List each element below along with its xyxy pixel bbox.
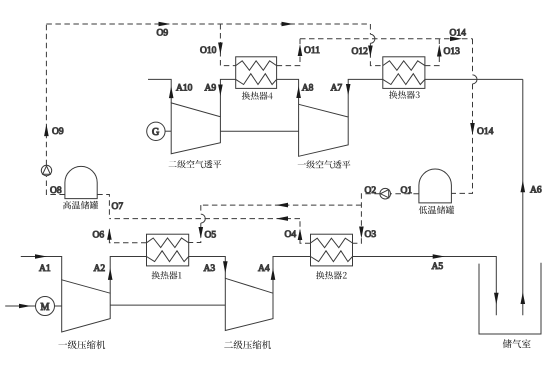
pump P2 [380,188,391,199]
turbine T2 二级空气透平 [171,103,220,154]
wire shaft compressors [110,304,225,306]
svg-text:O14: O14 [450,29,467,39]
arrow O14 right [450,37,462,42]
wire O10 branch down [220,24,235,66]
turbine T1 一级空气透平 [299,104,349,156]
arrow A5 down chamber [494,293,499,305]
wire air top right [425,78,523,80]
svg-text:O14: O14 [477,127,494,137]
wire A10 exhaust [148,79,171,103]
wire A1 inlet [21,257,62,280]
pump P1 [41,165,51,175]
wire O1 cold tank to pump [391,193,419,195]
svg-text:A8: A8 [302,84,314,94]
arrow A6 up lower [521,292,526,304]
wire motor to compressor [55,305,62,307]
arrow A2 up [108,268,113,280]
svg-text:O11: O11 [304,46,320,56]
svg-text:A2: A2 [94,264,106,274]
arrow motor inlet [19,304,31,309]
wire A7 [348,79,383,117]
arrow A7 down [346,84,351,96]
node O14 right label [477,127,494,137]
wire A8 riser [277,79,299,104]
svg-text:O13: O13 [444,47,461,57]
label chamber [224,340,271,349]
label HX3 [63,201,98,209]
node O3 label [365,230,377,240]
air chamber 储气室 [479,263,541,334]
svg-text:O9: O9 [157,29,169,39]
node A9 label [205,84,217,94]
node A6 label [530,185,542,195]
arrow A8 up [296,86,301,98]
label cold tank [316,271,347,279]
wire O8 tank to pump [46,176,65,195]
node O12 label [352,47,369,57]
wire A3 [189,257,226,279]
heat exchanger HX2 box [311,234,353,266]
node A10 label [176,84,193,94]
wire A6 riser [522,79,524,315]
node O14 top label [450,29,467,39]
tank cold 低温储罐 [419,169,452,203]
wire shaft turbines [220,130,298,132]
svg-text:O12: O12 [352,47,369,57]
wire top dashed horizontal [46,23,370,25]
wire O14 vertical down with hop [451,39,477,194]
wire O6 from HX1 left [109,228,146,243]
arrow O10 down [218,43,223,55]
wire O2 pump to branch [353,194,380,244]
svg-text:O1: O1 [401,186,413,196]
wire generator to turbine [165,130,171,132]
svg-text:A10: A10 [176,84,193,94]
arrow O13 up [437,45,442,57]
svg-text:O8: O8 [50,186,62,196]
label compressor1 [503,339,531,348]
svg-text:O6: O6 [93,231,105,241]
arrow O5 line left [276,203,288,208]
wire O11 from HX4 up [277,39,300,66]
wire A9 [220,79,235,116]
wire O14 upper horizontal dashed [300,38,473,40]
node O5 label [205,231,217,241]
svg-text:O7: O7 [112,202,124,212]
label compressor2 [58,340,105,349]
arrow O4 up [298,229,303,241]
svg-text:A1: A1 [39,264,51,274]
node A1 label [39,264,51,274]
arrow A4 up [271,268,276,280]
compressor C1 一级压缩机 [62,280,110,332]
svg-text:G: G [152,127,159,138]
label HX1 [389,91,420,99]
heat exchanger HX3 box [383,57,425,89]
svg-text:O10: O10 [200,46,217,56]
arrow O12 down [368,46,373,58]
svg-text:A4: A4 [258,264,270,274]
label HX4 [419,206,455,214]
svg-text:O5: O5 [205,231,217,241]
svg-text:M: M [41,302,50,313]
arrow A9 down [218,85,223,97]
node A5 label [432,262,444,272]
svg-text:A6: A6 [530,185,542,195]
node O13 label [444,47,461,57]
wire O12 branch down with hop [370,24,382,66]
wire motor inlet [5,305,35,307]
node A2 label [94,264,106,274]
generator G1 [147,122,165,140]
arrow O9 up [44,124,49,136]
node A8 label [302,84,314,94]
node O2 label [365,186,377,196]
wire O9 vertical dashed left [45,24,47,165]
node O10 label [200,46,217,56]
heat exchanger HX1 box [147,234,189,266]
heat exchanger HX4 box [236,57,277,89]
wire oil return horizontal [109,218,300,220]
node O9 top label [157,29,169,39]
svg-text:O3: O3 [365,230,377,240]
node O4 label [285,230,297,240]
arrow top O9 right [159,22,171,27]
node O9 left label [52,127,64,137]
node A4 label [258,264,270,274]
node O11 label [304,46,320,56]
svg-text:O4: O4 [285,230,297,240]
arrow A10 up [169,86,174,98]
node O7 label [112,202,124,212]
wire A5 [353,257,497,316]
arrow O6 up [107,228,112,240]
tank hot 高温储罐 [65,166,97,198]
node O6 label [93,231,105,241]
wire A4 riser [273,257,311,294]
node A7 label [331,84,343,94]
wire O7 tank to return [97,195,109,219]
svg-text:A7: A7 [331,84,343,94]
wire O5 vertical with hop [189,205,206,242]
arrow top second right [282,22,294,27]
arrow return left [276,216,288,221]
arrow A6 up upper [521,180,526,192]
node O8 label [50,186,62,196]
node O1 label [401,186,413,196]
svg-text:O2: O2 [365,186,377,196]
arrow O14 down [470,123,475,135]
wire A2 riser [110,257,146,294]
label hot tank [152,271,182,279]
label turbine1 [169,160,222,168]
svg-text:A9: A9 [205,84,217,94]
svg-text:A5: A5 [432,262,444,272]
wire O5 horizontal branch [201,204,362,206]
node A3 label [204,264,216,274]
compressor C2 二级压缩机 [225,278,273,330]
motor M1 [36,297,55,316]
arrow A5 right [433,254,445,259]
arrow O5 down [199,227,204,239]
arrow O3 down [359,227,364,239]
arrow O11 up [298,44,303,56]
wire O13 from HX3 up [425,39,439,66]
arrow A1 right [35,254,47,259]
svg-text:A3: A3 [204,264,216,274]
label turbine2 [298,160,351,168]
arrow A3 down [223,261,228,273]
wire O4 from HX2 left [300,219,311,244]
svg-text:O9: O9 [52,127,64,137]
label HX2 [242,92,273,100]
